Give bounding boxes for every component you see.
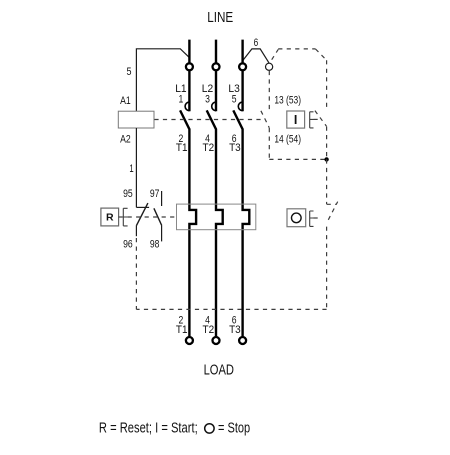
reset button bracket — [123, 208, 127, 226]
svg-text:= Stop: = Stop — [218, 419, 250, 436]
svg-text:A2: A2 — [120, 134, 131, 146]
phase L3 top conductor — [241, 40, 243, 112]
svg-text:T2: T2 — [203, 324, 215, 336]
start button I contact blade (dashed) — [315, 111, 327, 127]
svg-text:6: 6 — [254, 37, 259, 49]
svg-text:LINE: LINE — [207, 9, 233, 26]
svg-text:T1: T1 — [176, 142, 188, 154]
terminal circle wire 6 — [266, 63, 273, 70]
svg-text:R = Reset; I = Start;: R = Reset; I = Start; — [99, 419, 198, 436]
svg-text:95: 95 — [123, 188, 133, 200]
svg-text:LOAD: LOAD — [204, 362, 235, 379]
svg-text:3: 3 — [205, 94, 210, 106]
top dashed link from wire 6 to start branch — [272, 49, 327, 110]
bottom dashed return wire — [136, 308, 326, 310]
overload contact 96 lower stub — [135, 226, 137, 236]
stop contact stop-bar (dashed) — [327, 203, 337, 205]
contact blade + lower conductor + overload heater phase 2 — [207, 110, 223, 336]
stop contact blade (dashed) — [327, 202, 338, 223]
junction dot — [324, 157, 328, 161]
svg-text:T1: T1 — [176, 324, 188, 336]
svg-text:I: I — [294, 113, 297, 127]
reset button R box — [101, 208, 119, 226]
overload NO contact 97-98 blade — [154, 208, 162, 225]
fixed contact jaw L3 — [238, 102, 242, 111]
start button I box — [287, 111, 305, 128]
reset link dash (box to bracket) — [119, 216, 124, 218]
aux contact 13-14 branch upper dashed — [268, 71, 270, 111]
wire A2 to overload contact 95 — [135, 128, 137, 207]
svg-text:R: R — [106, 212, 114, 224]
left dashed vertical to contact 96 — [135, 238, 137, 309]
aux contact 13-14 lower dashed — [268, 128, 270, 159]
overload NC contact 95-96 blade — [136, 203, 148, 226]
svg-text:14 (54): 14 (54) — [274, 134, 301, 146]
svg-text:5: 5 — [232, 94, 237, 106]
svg-text:98: 98 — [150, 239, 160, 251]
svg-text:5: 5 — [127, 66, 132, 78]
contact blade + lower conductor + overload heater phase 3 — [233, 110, 249, 336]
stop branch lower dashed — [326, 227, 328, 310]
stop button O symbol — [292, 213, 302, 223]
overload NO contact 97 upper stub — [161, 191, 163, 206]
stop button bracket — [310, 211, 314, 226]
svg-text:13 (53): 13 (53) — [274, 94, 301, 106]
svg-text:A1: A1 — [120, 95, 131, 107]
terminal circle L2 — [213, 63, 220, 70]
coil K1 A1-A2 — [118, 111, 154, 128]
svg-text:1: 1 — [179, 94, 184, 106]
legend stop circle symbol — [205, 424, 214, 433]
overload contact 98 lower stub — [161, 225, 163, 241]
svg-text:97: 97 — [150, 188, 160, 200]
svg-text:1: 1 — [129, 163, 133, 175]
overload relay box — [177, 204, 256, 230]
phase L1 top conductor — [188, 40, 190, 112]
terminal circle T3 — [239, 337, 246, 344]
svg-text:96: 96 — [123, 239, 133, 251]
start button bracket — [310, 112, 314, 128]
aux contact 13-14 blade (dashed) — [261, 111, 269, 128]
start branch lower dashed — [326, 127, 328, 160]
overload NC contact 95-96 upper lead + stop bar — [136, 206, 149, 208]
reset mechanical link (dashed to overload) — [128, 216, 177, 218]
phase L2 top conductor — [215, 40, 217, 112]
dashed vertical to stop button — [326, 159, 328, 204]
stop button O box — [287, 209, 306, 227]
svg-text:T3: T3 — [229, 142, 241, 154]
coil mechanical link (dashed) — [154, 119, 263, 121]
svg-text:T2: T2 — [203, 142, 215, 154]
wire 6 (L3 to aux branch) — [243, 49, 269, 63]
fixed contact jaw L1 — [185, 102, 189, 111]
terminal circle L1 — [186, 63, 193, 70]
svg-text:T3: T3 — [229, 324, 241, 336]
terminal circle T1 — [186, 337, 193, 344]
start link dash — [314, 118, 320, 120]
wire 5 (L1 to coil A1) — [136, 49, 189, 112]
contact blade + lower conductor + overload heater phase 1 — [180, 110, 196, 336]
stop link dash — [314, 217, 322, 219]
terminal circle T2 — [213, 337, 220, 344]
fixed contact jaw L2 — [212, 102, 216, 111]
terminal circle L3 — [239, 63, 246, 70]
bottom edge of start parallel branch (dashed) — [269, 158, 326, 160]
